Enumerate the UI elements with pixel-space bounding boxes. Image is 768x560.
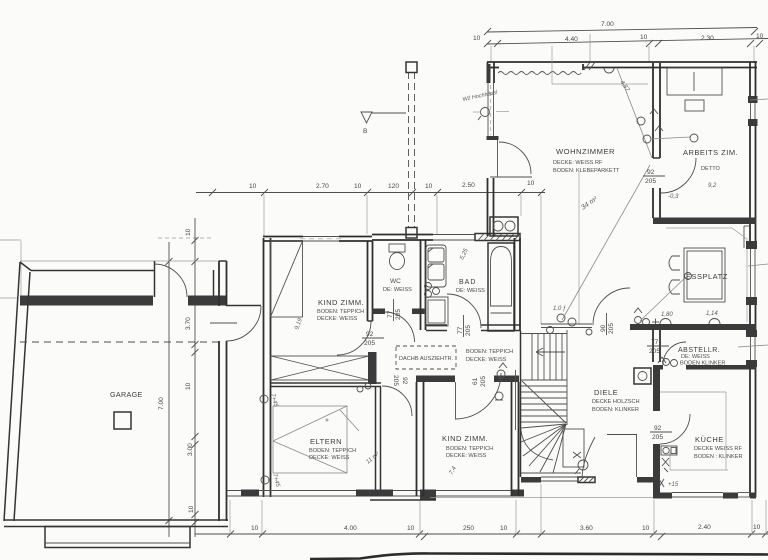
svg-text:BODEN KLINKER: BODEN KLINKER: [680, 361, 725, 367]
svg-text:BODEN: TEPPICH: BODEN: TEPPICH: [446, 446, 493, 452]
south wall of left wing with window piers: [227, 490, 524, 501]
garage south wall: [4, 520, 228, 527]
svg-text:2.30: 2.30: [701, 35, 714, 42]
svg-text:9,2: 9,2: [708, 183, 717, 189]
BAD door label 77/205 rotated: [457, 315, 472, 337]
ARBEITS labels: [683, 148, 738, 189]
svg-text:DE: WEISS: DE: WEISS: [456, 288, 485, 294]
svg-text:ESSPLATZ: ESSPLATZ: [686, 272, 728, 281]
entry threshold mark: [210, 322, 237, 324]
BAD door arc: [447, 294, 481, 328]
DACHB AUSZIEHTR dashed box: [396, 346, 456, 369]
wall between WOHNZIMMER and DIELE: [541, 324, 592, 328]
svg-text:3.00: 3.00: [187, 443, 194, 456]
bathtub inner: [491, 247, 512, 314]
KIND ZIMM top east wall: [368, 241, 373, 321]
WC door label 77/205 rotated: [387, 299, 402, 321]
BAD south wall: [426, 325, 520, 331]
ELTERN east wall: [376, 387, 381, 497]
WC door arc: [385, 312, 415, 342]
handwritten measures: [634, 308, 720, 326]
svg-text:WC: WC: [390, 278, 401, 285]
right wall window at ABSTELLR: [746, 330, 757, 367]
svg-text:BODEN: KLEBEPARKETT: BODEN: KLEBEPARKETT: [553, 168, 620, 174]
ABSTELLR west wall: [653, 330, 660, 362]
staircase middle flight horizontal treads: [521, 380, 567, 422]
svg-text:92: 92: [401, 377, 408, 385]
faint pencil lines extending to right margin: [738, 99, 768, 347]
ARBEITS desk: [667, 68, 722, 95]
svg-text:BODEN: TEPPICH: BODEN: TEPPICH: [466, 349, 513, 355]
BAD washbasin unit: [426, 245, 446, 287]
svg-text:4.40: 4.40: [565, 36, 578, 43]
KUECHE sink and stove symbols: [661, 446, 677, 472]
svg-text:DECKE: WEISS: DECKE: WEISS: [466, 357, 507, 363]
guide lines from middle dimension row: [264, 195, 541, 324]
ABSTELLR labels: [678, 347, 725, 367]
KIND ZIMM bottom door leaf and arc: [455, 373, 501, 419]
door stop circles near ARBEITS door: [637, 109, 698, 143]
svg-text:10: 10: [185, 228, 192, 236]
svg-text:205: 205: [480, 376, 487, 387]
svg-text:3.70: 3.70: [185, 317, 192, 330]
svg-text:205: 205: [645, 178, 656, 185]
svg-text:DECKE WEISS RF: DECKE WEISS RF: [694, 446, 742, 452]
svg-text:10: 10: [756, 33, 764, 40]
KUECHE counter lines: [660, 392, 728, 470]
bottom scan edge line: [310, 553, 768, 559]
guide lines from top dimensions: [491, 34, 754, 62]
svg-text:10: 10: [407, 525, 415, 532]
svg-text:1,0 ƒ: 1,0 ƒ: [553, 306, 567, 312]
ABSTELLR door arc: [663, 342, 686, 365]
neighbour boundary lines top-left: [0, 240, 21, 298]
garage north wall: [20, 271, 154, 306]
staircase landing box: [563, 429, 584, 467]
door label 92/205 corridor: [362, 331, 384, 347]
garage interior dashed line: [20, 341, 219, 343]
dimension chain top segments 10/4.40/10/2.30/10: [473, 33, 768, 47]
svg-text:4.00: 4.00: [344, 525, 357, 532]
WC south wall piers: [372, 309, 426, 315]
staircase winder treads fan: [521, 424, 566, 473]
house right wall: [750, 62, 756, 497]
window tick in top wall: [584, 61, 596, 70]
corridor wall / KIND ZIMM bottom north piers: [416, 376, 519, 383]
corridor closet end pier: [368, 352, 377, 384]
svg-text:10: 10: [188, 505, 195, 513]
west wall window section with dashed centre: [473, 83, 509, 140]
section marker B triangle: [361, 112, 406, 135]
svg-text:10: 10: [753, 524, 761, 531]
circle symbol on west wall: [478, 108, 490, 121]
ELTERN north wall: [271, 383, 381, 387]
KUECHE door label 92/205: [650, 425, 672, 441]
svg-text:205: 205: [364, 340, 375, 347]
house top wall: [487, 62, 757, 70]
vent half circle on top wall: [604, 68, 614, 73]
DIELE top door arc: [593, 288, 630, 325]
svg-text:DECKE: WEISS: DECKE: WEISS: [446, 453, 487, 459]
DIELE back door leaf and arc: [582, 435, 637, 478]
garage door leaf and arc: [155, 261, 188, 297]
ESSPLATZ table: [684, 248, 725, 302]
WOHNZIMMER entry door arc: [490, 140, 532, 177]
door handle circles at corridor: [495, 363, 507, 400]
KUECHE +15 niveau mark: [659, 479, 679, 488]
staircase upper flight vertical treads: [521, 330, 567, 425]
DIELE labels: [592, 388, 640, 413]
KIND ZIMM top door arc: [337, 321, 371, 355]
KUECHE labels: [694, 435, 743, 460]
dimension row bottom 10/4.00/10/250/10/3.60/10/2.40/10: [195, 524, 768, 540]
staircase pitch diagonal: [522, 381, 566, 423]
KIND ZIMM bottom east wall: [512, 382, 519, 496]
WC north wall: [372, 235, 475, 241]
svg-text:DETTO: DETTO: [701, 166, 721, 172]
garage vertical dimension chain B 10/3.70/10/3.00/10: [185, 218, 199, 537]
svg-text:92: 92: [654, 425, 662, 432]
svg-text:90: 90: [600, 324, 607, 332]
svg-text:DECKE: WEISS: DECKE: WEISS: [317, 316, 358, 322]
svg-text:2.50: 2.50: [462, 182, 475, 189]
svg-text:KÜCHE: KÜCHE: [695, 435, 724, 444]
garage roof overhang line: [20, 260, 226, 262]
svg-text:KIND ZIMM.: KIND ZIMM.: [318, 298, 364, 307]
svg-text:92: 92: [647, 169, 655, 176]
handwritten marks near ELTERN west wall: [260, 393, 281, 488]
svg-text:BODEN: KLINKER: BODEN: KLINKER: [592, 407, 639, 413]
KIND ZIMM bottom west wall: [417, 382, 424, 496]
WC toilet: [389, 244, 405, 270]
svg-text:WOHNZIMMER: WOHNZIMMER: [556, 147, 615, 156]
WC labels: [383, 278, 412, 293]
ELTERN labels: [309, 437, 381, 466]
svg-text:3.60: 3.60: [580, 525, 593, 532]
svg-text:10: 10: [249, 183, 257, 190]
dimension chain top total 7.00: [484, 21, 758, 35]
svg-text:1,14: 1,14: [706, 311, 718, 317]
KIND ZIMM top north wall: [263, 237, 372, 242]
washing machine flower circles: [425, 283, 440, 298]
svg-text:BODEN: TEPPICH: BODEN: TEPPICH: [317, 309, 364, 315]
strip door arc from corridor: [382, 386, 412, 416]
svg-text:10: 10: [640, 34, 648, 41]
svg-text:DE: WEISS: DE: WEISS: [681, 354, 710, 360]
svg-text:BODEN : KLINKER: BODEN : KLINKER: [694, 454, 743, 460]
stair west rail: [516, 331, 521, 477]
svg-text:B: B: [363, 128, 368, 135]
svg-text:DECKE: WEISS: DECKE: WEISS: [309, 455, 350, 461]
garage column square: [114, 412, 131, 429]
ARBEITS small box: [685, 100, 704, 111]
svg-text:77: 77: [651, 339, 659, 346]
door circle symbol DIELE: [573, 452, 588, 474]
wall ARBEITS / ESSPLATZ: [653, 218, 756, 225]
svg-text:10: 10: [473, 35, 481, 42]
section line B-B: [406, 62, 417, 238]
ARBEITS ZIM west wall: [653, 63, 660, 218]
svg-text:DIELE: DIELE: [594, 388, 618, 397]
staircase up arrow pointing west: [536, 348, 565, 356]
svg-text:7.00: 7.00: [601, 21, 614, 28]
garage vertical dimension chain A total 7.00: [158, 238, 213, 537]
door label 61/205 rotated: [472, 376, 487, 387]
svg-text:DECKE HOLZSCH: DECKE HOLZSCH: [592, 399, 640, 405]
ABSTELLR south wall with door gap: [653, 365, 756, 370]
curtain guide lines: [552, 46, 648, 84]
svg-text:7.00: 7.00: [158, 397, 165, 410]
svg-text:DECKE: WEISS RF: DECKE: WEISS RF: [553, 160, 603, 166]
ARBEITS door label 92/205: [643, 169, 665, 185]
ELTERN pencil cross: [273, 406, 359, 473]
svg-text:1,80: 1,80: [661, 312, 673, 318]
ABSTELLR door circles: [658, 357, 678, 367]
svg-text:2.70: 2.70: [316, 183, 329, 190]
dimension row middle 10/2.70/10/120/10/2.50/10: [196, 180, 545, 196]
door stop circles near DIELE door: [547, 314, 593, 335]
garage west wall (slanted): [4, 262, 31, 521]
door hinge circles at ELTERN north wall: [357, 383, 371, 392]
WOHNZIMMER labels: [553, 147, 620, 212]
DIELE south wall piers and windows: [521, 477, 653, 483]
right wall window bracket ESSPLATZ: [744, 226, 750, 248]
svg-text:ABSTELLR.: ABSTELLR.: [678, 347, 720, 354]
ESSPLATZ inner floor outline: [666, 228, 747, 322]
svg-text:ARBEITS ZIM.: ARBEITS ZIM.: [683, 148, 738, 157]
right wall window at ARBEITS ZIM: [748, 96, 758, 126]
svg-text:10: 10: [500, 525, 508, 532]
ARBEITS ZIM door arc: [661, 158, 696, 193]
svg-text:77: 77: [387, 310, 394, 318]
svg-text:10: 10: [185, 382, 192, 390]
svg-text:KIND ZIMM.: KIND ZIMM.: [442, 434, 488, 443]
WOHNZIMMER west wall upper corner: [487, 62, 495, 83]
KUECHE door arc: [660, 414, 690, 444]
insulation squiggle in top wall: [498, 72, 581, 75]
svg-text:10: 10: [354, 183, 362, 190]
hatched wall pier north of BAD: [475, 234, 520, 241]
BAD east wall: [515, 238, 521, 331]
svg-text:205: 205: [395, 309, 402, 320]
svg-text:+15: +15: [668, 482, 679, 488]
svg-text:77: 77: [457, 326, 464, 334]
WOHNZIMMER west wall lower: [488, 178, 494, 236]
guide lines from bottom walls to dimension row: [230, 484, 766, 534]
svg-text:DE: WEISS: DE: WEISS: [383, 287, 412, 293]
KUECHE west wall lower: [653, 444, 660, 497]
ABSTELLR door label 77/205: [647, 339, 669, 355]
svg-text:10: 10: [527, 180, 535, 187]
svg-text:-0,3: -0,3: [668, 194, 679, 200]
KUECHE west wall upper: [653, 368, 660, 411]
KIND ZIMM top closet with diagonal: [271, 241, 303, 317]
svg-text:BAD: BAD: [459, 279, 476, 286]
DIELE top door label 90/205 rotated: [600, 313, 615, 335]
svg-text:GARAGE: GARAGE: [110, 390, 143, 399]
svg-text:BODEN: TEPPICH: BODEN: TEPPICH: [309, 448, 356, 454]
svg-text:120: 120: [388, 183, 399, 190]
svg-text:205: 205: [465, 325, 472, 336]
KUECHE south wall with window: [653, 493, 756, 499]
stair void edge line: [578, 172, 580, 324]
washing machine: [425, 297, 448, 326]
strip door label 92/205 rotated: [392, 375, 408, 386]
KIND ZIMM top labels: [294, 298, 364, 331]
KIND ZIMM bottom labels: [442, 434, 493, 476]
svg-text:205: 205: [608, 323, 615, 334]
garage door apron recess: [45, 527, 190, 548]
svg-text:ELTERN: ELTERN: [310, 437, 342, 446]
svg-text:61: 61: [472, 377, 479, 385]
svg-text:92: 92: [366, 331, 374, 338]
corridor text boden/decke: [466, 349, 513, 363]
terrace edge line: [430, 497, 653, 499]
svg-text:10: 10: [251, 525, 259, 532]
bathtub outer: [488, 243, 514, 331]
pencil diagonal to table: [640, 276, 687, 321]
ESSPLATZ south wall: [630, 324, 756, 330]
BAD labels: [456, 247, 485, 294]
right wall window at ESSPLATZ: [746, 241, 757, 305]
ELTERN west wall: [264, 238, 271, 497]
svg-text:205: 205: [649, 348, 660, 355]
svg-text:10: 10: [642, 525, 650, 532]
WC/BAD divider wall: [421, 240, 426, 330]
kitchenette box with two burners: [490, 217, 518, 236]
svg-text:250: 250: [463, 525, 474, 532]
entry door arc: [226, 306, 261, 342]
house west wall: [214, 261, 227, 521]
staircase bottom edge: [521, 472, 581, 474]
chimney with circle: [634, 368, 651, 384]
svg-text:DACHB AUSZIEHTR.: DACHB AUSZIEHTR.: [399, 356, 454, 362]
svg-text:10: 10: [425, 183, 433, 190]
svg-text:205: 205: [392, 375, 399, 386]
pencil diagonals in WOHNZIMMER: [562, 68, 652, 320]
entry north pier: [188, 296, 226, 306]
ESSPLATZ chairs: [669, 256, 680, 294]
svg-text:2.40: 2.40: [698, 524, 711, 531]
svg-text:205: 205: [652, 434, 663, 441]
corridor built-in closet with X: [271, 356, 369, 380]
